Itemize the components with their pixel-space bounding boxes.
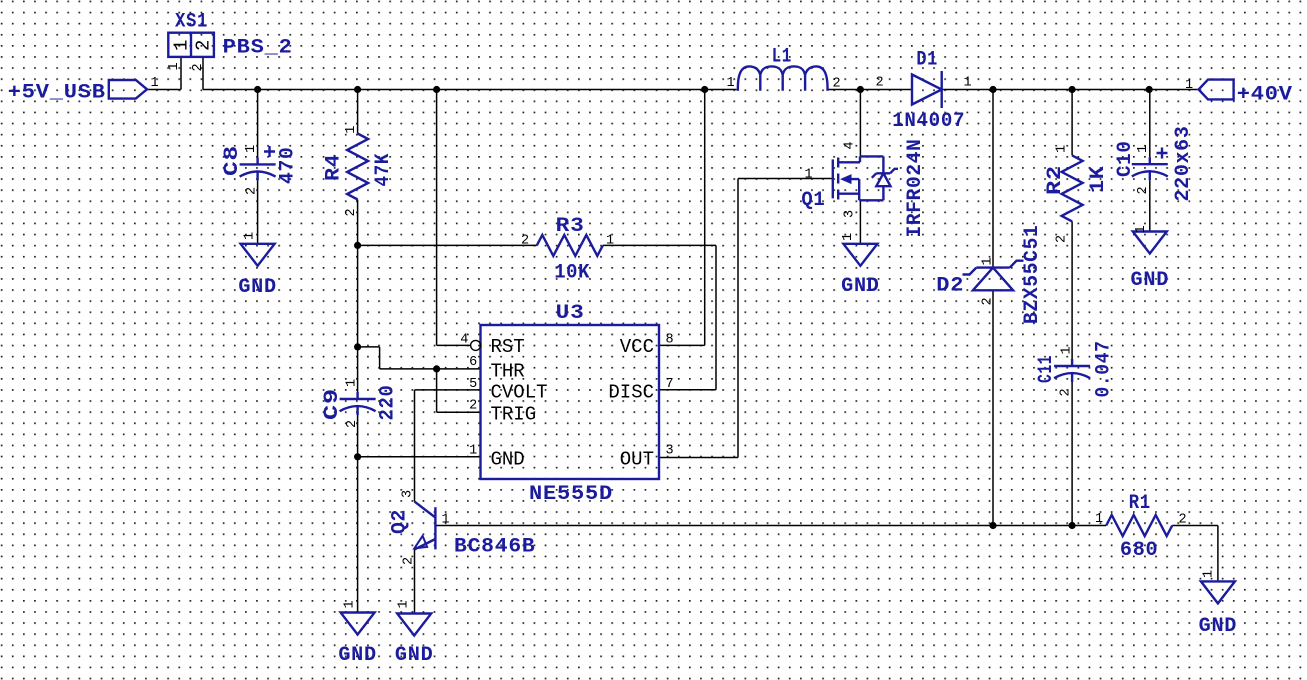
svg-text:L1: L1 [772,46,792,69]
svg-text:1: 1 [1055,145,1070,153]
svg-text:1: 1 [151,76,159,91]
svg-text:1: 1 [167,62,182,70]
transistor Q2 BC846B (npn, mirrored) [414,502,435,550]
svg-text:1: 1 [841,233,856,241]
svg-text:1: 1 [344,126,359,134]
svg-text:0.047: 0.047 [1093,341,1116,398]
svg-text:1: 1 [1185,78,1193,93]
svg-text:1: 1 [1095,512,1103,527]
svg-text:1: 1 [243,232,258,240]
diode D1 1N4007 [912,71,942,108]
supply flag +40V [1199,80,1234,100]
svg-text:GND: GND [1199,615,1238,638]
wire: THR jog from R4 line [358,347,481,369]
wire: XS1 pin 2 down to main rail, rail to L1 [203,57,737,90]
svg-text:IRFR024N: IRFR024N [904,139,927,238]
svg-text:2: 2 [345,420,360,428]
svg-text:47K: 47K [372,153,395,187]
svg-text:U3: U3 [556,302,585,325]
transistor Q1 IRFR024N (n-mosfet) [833,156,898,200]
wire: OUT up to Q1 gate [659,179,833,458]
svg-text:C8: C8 [221,145,244,176]
wire: CVOLT to Q2 collector [415,390,481,502]
U3 RST inversion bubble [471,340,481,350]
svg-text:4: 4 [843,141,858,149]
resistor R3 10K [537,235,603,256]
svg-text:1: 1 [171,40,193,51]
capacitor C11 (0.047) [1054,359,1090,382]
svg-text:2: 2 [245,187,260,195]
wire: R4 branch and down to C9/GND [357,90,359,613]
svg-text:2: 2 [402,557,417,565]
svg-text:DISC: DISC [608,381,654,403]
svg-text:7: 7 [666,377,674,392]
supply flag +5V_USB [109,80,147,99]
wire: VCC to rail [659,90,705,346]
svg-text:C9: C9 [321,388,344,420]
svg-text:1: 1 [469,444,477,459]
svg-text:2: 2 [876,76,884,91]
svg-text:THR: THR [491,360,525,382]
wire: D1 cathode to +40V flag [942,89,1199,91]
svg-text:220x63: 220x63 [1172,126,1195,202]
svg-text:GND: GND [841,275,880,298]
resistor R4 47K [347,134,368,200]
svg-text:470: 470 [277,147,300,185]
svg-text:1: 1 [981,257,996,265]
svg-text:C10: C10 [1114,141,1137,178]
ground GND (Q1) [843,244,877,266]
svg-text:1: 1 [244,145,259,153]
wire: Q2 emitter down [414,549,416,613]
svg-text:D2: D2 [936,275,964,298]
wire: R2 branch to C11 to base row [1071,90,1073,526]
wire: L1 to D1 anode [828,89,913,91]
svg-text:2: 2 [1179,513,1187,528]
ground GND (C8) [241,244,275,266]
svg-text:BZX55C51: BZX55C51 [1021,225,1044,325]
svg-text:10K: 10K [554,262,590,285]
svg-text:GND: GND [338,644,377,667]
svg-text:1: 1 [1202,570,1217,578]
svg-text:8: 8 [666,333,674,348]
wire: C8 branch [257,90,259,244]
svg-text:R1: R1 [1129,492,1151,515]
svg-text:NE555D: NE555D [529,483,613,506]
svg-text:VCC: VCC [620,336,654,358]
svg-text:5: 5 [469,377,477,392]
svg-text:R2: R2 [1044,165,1067,195]
XS1 cell pin names 1,2 [171,40,215,51]
svg-text:R4: R4 [323,154,346,182]
svg-text:6: 6 [469,355,477,370]
wire: R4 to R3 row, R3 to DISC vertical [358,245,716,389]
wire: C10 branch [1149,90,1151,232]
wire: +5V_USB flag to XS1 pin 1 [147,57,181,90]
svg-text:2: 2 [981,297,996,305]
svg-text:1: 1 [442,513,450,528]
svg-text:2: 2 [1055,235,1070,243]
capacitor C10 (220x63 polarized) [1132,148,1168,181]
svg-text:1N4007: 1N4007 [892,110,965,133]
resistor R2 1K [1062,155,1083,221]
ground GND (R1) [1201,581,1235,603]
svg-text:Q1: Q1 [801,189,825,212]
svg-text:1K: 1K [1087,166,1110,194]
svg-text:2: 2 [193,40,215,51]
resistor R1 680 [1106,515,1172,536]
wire: rail to RST/THR/TRIG vertical [437,90,481,413]
svg-text:D1: D1 [916,48,938,71]
svg-text:GND: GND [238,276,277,299]
capacitor C8 (polarized 470) [240,146,276,180]
svg-text:4: 4 [460,333,468,348]
svg-text:220: 220 [377,385,400,421]
wire: Q1 drain / source [859,90,861,244]
svg-text:1: 1 [805,168,813,183]
XS1 pin numbers [167,62,206,71]
svg-text:R3: R3 [556,215,585,238]
svg-text:C11: C11 [1035,355,1058,383]
svg-text:1: 1 [345,379,360,387]
svg-text:Q2: Q2 [389,509,412,534]
svg-text:XS1: XS1 [175,11,208,34]
svg-text:+40V: +40V [1237,83,1293,106]
svg-text:1: 1 [343,600,358,608]
svg-text:1: 1 [397,600,412,608]
svg-text:2: 2 [469,399,477,414]
svg-text:2: 2 [1136,186,1151,194]
svg-text:3: 3 [666,444,674,459]
svg-text:1: 1 [606,234,614,249]
ground GND (C9) [341,613,375,635]
capacitor C9 (220) [340,392,376,415]
junction dots [254,86,261,93]
svg-text:1: 1 [727,76,735,91]
svg-text:PBS_2: PBS_2 [223,37,293,60]
svg-text:1: 1 [964,76,972,91]
svg-text:CVOLT: CVOLT [491,381,548,403]
svg-text:GND: GND [1131,269,1170,292]
wire: U3 GND pin row [358,456,481,458]
svg-text:3: 3 [401,490,416,498]
wire: Q2 base row to R1, R1 to GND [437,526,1218,582]
svg-text:1: 1 [1136,145,1151,153]
svg-text:680: 680 [1120,539,1159,562]
ground GND (Q2) [397,614,431,636]
svg-text:2: 2 [833,77,841,92]
svg-text:BC846B: BC846B [454,535,536,558]
svg-text:2: 2 [191,63,206,71]
svg-text:+5V_USB: +5V_USB [8,82,106,105]
svg-text:TRIG: TRIG [491,403,537,425]
svg-text:2: 2 [1059,388,1074,396]
inductor L1 [738,66,828,90]
wire: D2 branch [992,90,994,526]
svg-text:2: 2 [344,208,359,216]
svg-text:2: 2 [521,234,529,249]
ic U3 NE555D [481,325,660,479]
connector XS1 [168,33,214,57]
diode D2 BZX55C51 (zener) [963,261,1024,291]
svg-text:GND: GND [491,448,525,470]
svg-text:OUT: OUT [620,448,654,470]
svg-text:1: 1 [1134,225,1149,233]
ground GND (C10) [1133,232,1167,254]
svg-text:RST: RST [491,336,525,358]
svg-text:GND: GND [395,644,434,667]
svg-text:1: 1 [1060,346,1075,354]
svg-text:3: 3 [843,210,858,218]
